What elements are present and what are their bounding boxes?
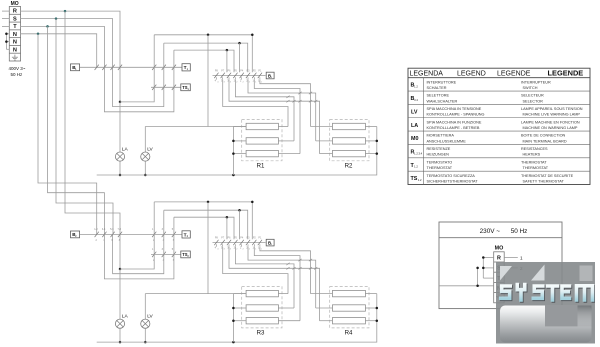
svg-text:4: 4: [217, 81, 219, 83]
wire: [2, 11, 9, 26]
switch B2: [71, 231, 80, 238]
pin numbers: [94, 228, 121, 242]
svg-text:INTERRUPTEUR: INTERRUPTEUR: [521, 80, 551, 84]
svg-text:T: T: [13, 24, 17, 30]
svg-text:SELETTORE: SELETTORE: [427, 94, 450, 98]
legend row B3.4: [411, 94, 545, 104]
svg-text:LEGENDA: LEGENDA: [410, 71, 444, 78]
wire: [154, 202, 252, 239]
wire T phase: [21, 26, 105, 67]
svg-text:R: R: [13, 9, 17, 15]
svg-text:P4: P4: [240, 237, 244, 240]
safety thermostat TS2 contacts: [152, 252, 176, 257]
svg-text:SPIA MACCHINA IN FUNZIONE: SPIA MACCHINA IN FUNZIONE: [427, 120, 482, 124]
node: [55, 17, 58, 20]
svg-text:R: R: [497, 256, 501, 262]
svg-text:5: 5: [172, 248, 174, 251]
wire: [6, 34, 9, 50]
wire: [144, 294, 146, 320]
wire: [119, 328, 121, 342]
svg-text:LV: LV: [147, 147, 153, 153]
wire: [504, 257, 518, 259]
wire neutral: [97, 294, 377, 343]
svg-text:KONTROLLLAMPE - SPANNUNG: KONTROLLLAMPE - SPANNUNG: [427, 113, 485, 117]
svg-text:3: 3: [162, 248, 164, 251]
svg-text:SCHALTER: SCHALTER: [427, 86, 447, 90]
legend row LV: [411, 107, 583, 117]
node: [64, 10, 67, 13]
node: [232, 140, 235, 155]
svg-text:LAMPE MACHINE EN FONCTION: LAMPE MACHINE EN FONCTION: [521, 120, 580, 124]
pin numbers: [152, 228, 175, 242]
node: [5, 33, 8, 43]
svg-text:MORSETTIERA: MORSETTIERA: [427, 134, 455, 138]
thermostat T2: [182, 231, 190, 239]
svg-text:MACHINE ON WARNING LAMP: MACHINE ON WARNING LAMP: [523, 126, 578, 130]
node: [144, 174, 147, 177]
svg-text:1.2: 1.2: [418, 178, 422, 182]
svg-text:50 Hz: 50 Hz: [511, 228, 528, 235]
svg-text:P1: P1: [258, 237, 262, 240]
wire selector-to-heater harness: [223, 247, 320, 321]
svg-text:THERMOSTAT: THERMOSTAT: [427, 166, 453, 170]
svg-text:P6: P6: [228, 237, 232, 240]
SYSTEM watermark logo: [496, 262, 596, 344]
wire: [151, 253, 181, 255]
svg-text:TERMOSTATO: TERMOSTATO: [427, 160, 453, 164]
lamp LV: [141, 147, 154, 162]
legend row R1.2.3.4: [411, 147, 548, 157]
svg-text:THERMOSTAT: THERMOSTAT: [523, 166, 549, 170]
svg-text:P2: P2: [253, 237, 257, 240]
value label R1: [257, 162, 265, 169]
node: [232, 341, 235, 344]
wire: [145, 293, 246, 295]
safety thermostat TS1: [181, 84, 191, 91]
svg-text:R4: R4: [345, 330, 353, 337]
lamp LA: [115, 314, 128, 329]
svg-text:2: 2: [243, 249, 245, 251]
svg-text:7-8: 7-8: [118, 228, 122, 231]
svg-text:SPIA MACCHINA IN TENSIONE: SPIA MACCHINA IN TENSIONE: [427, 107, 482, 111]
safety thermostat TS1 contacts: [152, 85, 176, 90]
wire: [174, 217, 234, 239]
svg-text:MO: MO: [495, 245, 504, 251]
lamp LV: [141, 314, 154, 329]
wire neutral: [97, 127, 377, 176]
wire: [113, 210, 164, 274]
wire: [239, 43, 241, 72]
wire: [119, 102, 121, 152]
node: [144, 341, 147, 344]
svg-text:1: 1: [520, 256, 523, 261]
resistor bank R2: [311, 120, 377, 161]
legend header: [410, 68, 584, 77]
node: [207, 34, 254, 37]
svg-text:KONTROLLLAMPE - BETRIEB: KONTROLLLAMPE - BETRIEB: [427, 126, 480, 130]
svg-text:1-2: 1-2: [94, 228, 98, 231]
svg-text:SELECTEUR: SELECTEUR: [521, 94, 544, 98]
switch B2 contacts: [95, 232, 123, 237]
svg-text:P3: P3: [247, 70, 251, 73]
svg-text:BOITE DE CONNECTION: BOITE DE CONNECTION: [521, 134, 566, 138]
logo cylinder bar: [500, 306, 592, 343]
node: [232, 174, 235, 177]
wire: [504, 267, 518, 269]
svg-text:ANSCHLUSSKLEMME: ANSCHLUSSKLEMME: [427, 139, 467, 143]
svg-text:2: 2: [236, 81, 238, 83]
wire T feeder: [48, 26, 105, 234]
svg-text:S: S: [13, 16, 17, 22]
svg-text:N: N: [13, 40, 17, 46]
pin numbers: [215, 70, 263, 84]
pin numbers: [520, 256, 523, 261]
ground: [12, 55, 18, 60]
safety thermostat TS2: [181, 251, 191, 258]
svg-text:P6: P6: [228, 70, 232, 73]
svg-text:P1: P1: [258, 70, 262, 73]
svg-text:2: 2: [249, 249, 251, 251]
svg-text:4: 4: [217, 249, 219, 251]
svg-text:P2: P2: [253, 70, 257, 73]
wire: [119, 161, 121, 175]
node: [207, 201, 254, 204]
logo background plate: [496, 262, 596, 344]
wire: [120, 35, 154, 102]
legend row T1.2: [411, 160, 549, 170]
switch B1: [71, 64, 80, 71]
node: [119, 174, 122, 177]
svg-text:LEGENDE: LEGENDE: [548, 68, 584, 77]
svg-text:50 Hz: 50 Hz: [11, 72, 24, 77]
svg-text:SICHERHEITSTHERMOSTAT: SICHERHEITSTHERMOSTAT: [427, 179, 479, 183]
selector B3: [266, 72, 274, 79]
svg-text:2: 2: [236, 249, 238, 251]
svg-text:3: 3: [224, 249, 226, 251]
svg-text:R2: R2: [345, 162, 353, 169]
wire: [120, 202, 154, 269]
node: [376, 140, 379, 155]
value label 400V 3~ 50 Hz: [9, 66, 26, 77]
node: [238, 42, 241, 45]
wire: [80, 66, 182, 68]
wire: [164, 210, 248, 239]
svg-text:P5: P5: [234, 237, 238, 240]
svg-text:THERMOSTAT: THERMOSTAT: [521, 160, 547, 164]
wire: [439, 268, 494, 286]
svg-text:230V ~: 230V ~: [480, 228, 501, 235]
wire: [239, 210, 241, 239]
svg-text:1: 1: [261, 81, 263, 83]
svg-text:THERMOSTAT DE SECURITE: THERMOSTAT DE SECURITE: [521, 174, 574, 178]
svg-text:1: 1: [152, 228, 154, 231]
svg-text:INTERRUTTORE: INTERRUTTORE: [427, 80, 457, 84]
svg-text:2: 2: [96, 239, 98, 242]
terminal block M0 (R S T N N N): [9, 7, 20, 62]
wire: [144, 127, 146, 153]
node: [226, 49, 229, 52]
svg-text:400V 3~: 400V 3~: [9, 66, 26, 71]
svg-text:1.2: 1.2: [414, 85, 418, 89]
wire: [113, 43, 164, 107]
node: [482, 256, 485, 269]
legend table frame: [408, 68, 590, 184]
pin numbers: [215, 237, 263, 251]
node: [226, 216, 229, 219]
svg-text:R3: R3: [257, 330, 265, 337]
wire: [278, 127, 300, 154]
value label R4: [345, 330, 353, 337]
logo notch: [545, 305, 578, 326]
wire: [104, 217, 173, 279]
wire: [226, 50, 228, 72]
node: [476, 267, 479, 287]
wire: [119, 234, 121, 269]
svg-text:TERMOSTATO SICUREZZA: TERMOSTATO SICUREZZA: [427, 174, 476, 178]
svg-text:3: 3: [230, 81, 232, 83]
svg-text:2: 2: [187, 254, 189, 258]
svg-text:3-4: 3-4: [102, 228, 106, 231]
svg-text:1: 1: [255, 81, 257, 83]
wire: [174, 50, 234, 72]
wire: [119, 67, 121, 102]
svg-text:SAFETY THERMOSTAT: SAFETY THERMOSTAT: [523, 179, 565, 183]
node: [238, 209, 241, 212]
legend row TS1.2: [411, 174, 574, 184]
wire: [154, 35, 252, 72]
wire N neutral: [21, 34, 97, 68]
svg-text:P7: P7: [221, 237, 225, 240]
svg-text:1.2: 1.2: [414, 165, 418, 169]
wire: [104, 50, 173, 112]
svg-text:MACHINE LIVE WARNING LAMP: MACHINE LIVE WARNING LAMP: [523, 113, 581, 117]
node: [119, 341, 122, 344]
terminal block M0 label: [11, 1, 19, 7]
selector B3 contacts: [213, 73, 266, 80]
svg-text:LV: LV: [147, 314, 153, 320]
wire: [144, 161, 146, 175]
terminal block M0 (230V): [494, 252, 505, 303]
selector B4: [266, 239, 274, 246]
svg-text:M0: M0: [411, 136, 419, 142]
logo triangle 1: [500, 266, 512, 281]
svg-text:HEATERS: HEATERS: [523, 153, 541, 157]
logo triangle 2: [531, 265, 545, 281]
thermostat T2 contacts: [152, 232, 176, 237]
wire: [226, 217, 228, 239]
value label R3: [257, 330, 265, 337]
wire R feeder: [65, 11, 120, 234]
resistor bank R4: [311, 287, 377, 328]
svg-text:LA: LA: [411, 123, 418, 129]
legend row M0: [411, 134, 567, 144]
logo square: [579, 266, 592, 282]
svg-text:3: 3: [230, 249, 232, 251]
thermostat T1 contacts: [152, 65, 176, 70]
wire N feeder: [38, 34, 97, 235]
svg-text:SELECTOR: SELECTOR: [523, 99, 544, 103]
node: [232, 307, 235, 322]
svg-text:TS: TS: [411, 176, 418, 182]
svg-text:WAHLSCHALTER: WAHLSCHALTER: [427, 99, 458, 103]
wire selector-to-heater harness: [223, 80, 320, 154]
svg-text:LEGEND: LEGEND: [457, 71, 486, 78]
svg-text:LV: LV: [411, 109, 418, 115]
resistor bank R1: [233, 120, 282, 176]
svg-text:5-6: 5-6: [110, 228, 114, 231]
wire: [207, 202, 209, 294]
svg-text:RESISTENZE: RESISTENZE: [427, 147, 451, 151]
230V auxiliary box frame: [439, 222, 562, 309]
svg-text:2: 2: [187, 234, 189, 238]
svg-text:5: 5: [172, 228, 174, 231]
wire: [151, 86, 181, 88]
svg-text:2: 2: [243, 81, 245, 83]
svg-text:P5: P5: [234, 70, 238, 73]
svg-text:1: 1: [187, 67, 189, 71]
svg-text:N: N: [13, 47, 17, 53]
svg-text:P7: P7: [221, 70, 225, 73]
wire: [80, 233, 182, 235]
node: [376, 307, 379, 322]
value label R2: [345, 162, 353, 169]
svg-text:3.4: 3.4: [414, 98, 418, 102]
svg-text:SWITCH: SWITCH: [523, 86, 538, 90]
pin numbers: [152, 248, 175, 262]
value label 230V 50Hz: [480, 228, 528, 235]
svg-text:P8: P8: [215, 237, 219, 240]
legend row B1.2: [411, 80, 552, 90]
svg-text:N: N: [13, 32, 17, 38]
wire: [164, 43, 248, 72]
wire R phase: [21, 11, 120, 67]
node: [37, 33, 40, 36]
svg-text:1: 1: [152, 248, 154, 251]
svg-text:RESISTANCES: RESISTANCES: [521, 147, 548, 151]
wire: [278, 294, 300, 321]
wire: [119, 269, 121, 319]
wire S phase: [21, 19, 113, 68]
resistor bank R3: [233, 287, 282, 343]
svg-text:R1: R1: [257, 162, 265, 169]
node: [119, 268, 122, 271]
wire: [207, 35, 209, 127]
svg-text:1: 1: [261, 249, 263, 251]
svg-text:LEGENDE: LEGENDE: [497, 71, 531, 78]
svg-text:P8: P8: [215, 70, 219, 73]
svg-text:1.2.3.4: 1.2.3.4: [414, 151, 422, 155]
logo word SYSTEM: [500, 285, 593, 302]
wire: [144, 328, 146, 342]
node: [46, 25, 49, 28]
logo bar shadow segment: [577, 306, 591, 327]
svg-text:LA: LA: [122, 147, 129, 153]
wire: [483, 258, 493, 279]
lamp LA: [115, 147, 128, 162]
switch B1 contacts: [95, 65, 123, 70]
svg-text:1: 1: [187, 87, 189, 91]
ground: [496, 294, 502, 298]
svg-text:P3: P3: [247, 237, 251, 240]
svg-text:1: 1: [255, 249, 257, 251]
svg-text:HEIZUNGEN: HEIZUNGEN: [427, 153, 450, 157]
selector B4 contacts: [213, 240, 266, 247]
wire: [145, 126, 246, 128]
svg-text:LA: LA: [122, 314, 129, 320]
svg-text:MAIN TERMINAL BOARD: MAIN TERMINAL BOARD: [523, 139, 567, 143]
svg-text:LAMPE APPAREIL SOUS TENSION: LAMPE APPAREIL SOUS TENSION: [521, 107, 583, 111]
wire S feeder: [56, 19, 113, 235]
pin numbers: [520, 266, 523, 271]
svg-text:2: 2: [249, 81, 251, 83]
terminal block M0 label: [495, 245, 504, 251]
svg-text:P4: P4: [240, 70, 244, 73]
node: [119, 101, 122, 104]
svg-text:3: 3: [224, 81, 226, 83]
legend row LA: [411, 120, 580, 130]
svg-text:3: 3: [162, 228, 164, 231]
thermostat T1: [182, 64, 190, 71]
